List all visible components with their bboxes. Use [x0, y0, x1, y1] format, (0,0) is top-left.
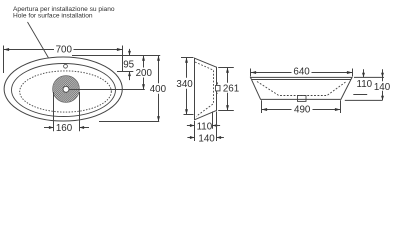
front view dimension 110 bottom extension line [353, 94, 367, 96]
dimension 640 extension lines [250, 69, 252, 77]
front view outline [251, 77, 353, 99]
svg-text:95: 95 [123, 60, 134, 71]
dimension 160 extension lines [53, 92, 55, 131]
dimension 400 [150, 56, 167, 122]
overflow tab on side view [216, 82, 221, 93]
hatched drain hole circle [53, 76, 80, 103]
svg-text:261: 261 [223, 83, 239, 94]
drain center circle [63, 86, 69, 92]
top view: outer rim ellipse [4, 57, 122, 121]
extension line C: drain centerline [69, 89, 145, 91]
dimension 340 extension lines [181, 57, 194, 59]
front view drain notch [298, 96, 307, 102]
top view: inner rim ellipse [12, 64, 116, 117]
dimension 340 [176, 58, 193, 115]
svg-text:400: 400 [150, 84, 167, 95]
svg-text:640: 640 [293, 66, 310, 77]
front view dimension 140 top arrow [374, 69, 391, 100]
front view hidden bowl (dashed) [257, 82, 346, 96]
dimension 640 [251, 66, 353, 77]
leader line from caption to installation hole [28, 22, 63, 81]
top view: dashed installation-hole ellipse [20, 71, 112, 112]
svg-text:160: 160 [56, 123, 73, 134]
side view outline [195, 58, 217, 120]
svg-text:140: 140 [374, 82, 391, 93]
extension line A: top tangent of rim [72, 55, 160, 57]
svg-text:110: 110 [356, 79, 372, 90]
front view dimension 140 bottom extension line and arrow [345, 96, 384, 101]
side view hidden inner wall (dashed) [195, 62, 214, 116]
dimension 200 [136, 56, 153, 90]
front view rim second line [252, 79, 351, 81]
dimension 700 extension lines [3, 46, 5, 74]
extension line D: bottom tangent of rim [99, 121, 159, 123]
dimension 160 (outside arrows) [44, 123, 89, 134]
svg-text:110: 110 [197, 121, 213, 132]
side view dimension 110 (outside arrows) [187, 121, 220, 132]
dimension 261 [223, 68, 239, 111]
dimension 95 (outside arrows) [123, 49, 134, 80]
svg-text:Hole for surface installation: Hole for surface installation [13, 12, 93, 19]
side view dimension 140 extension line right [216, 112, 218, 142]
svg-text:490: 490 [294, 104, 311, 115]
dimension 700 line and arrows [4, 45, 123, 56]
dimension 261 extension lines [218, 67, 234, 69]
extension line B: top tangent of hole [117, 71, 133, 73]
dimension 490 extension lines [261, 100, 263, 113]
dimension 490 [262, 104, 341, 115]
side view dimension 140 (outside arrows) [187, 134, 224, 145]
svg-text:340: 340 [176, 79, 193, 90]
front view top edge extension to the right [354, 76, 384, 78]
faucet hole small circle [64, 64, 68, 68]
svg-text:140: 140 [198, 134, 215, 145]
svg-text:700: 700 [56, 45, 73, 56]
svg-text:200: 200 [136, 68, 153, 79]
front view dimension 110 top arrow [356, 69, 372, 90]
caption text: Apertura per installazione su piano / Hole for surface installation [13, 6, 115, 19]
side view dimension 110 extension lines [194, 121, 196, 141]
